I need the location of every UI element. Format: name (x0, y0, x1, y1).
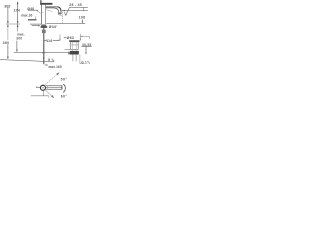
svg-text:G 1¼: G 1¼ (81, 60, 90, 64)
svg-text:max.160: max.160 (49, 65, 62, 69)
svg-text:Ø48: Ø48 (27, 7, 34, 11)
svg-text:Ø63: Ø63 (67, 36, 74, 40)
svg-text:Ø34: Ø34 (49, 25, 56, 29)
svg-text:108: 108 (79, 15, 86, 19)
svg-text:G ⅜: G ⅜ (48, 58, 55, 62)
svg-text:308: 308 (4, 4, 10, 8)
svg-text:116: 116 (46, 39, 52, 43)
svg-text:60°: 60° (61, 94, 68, 98)
svg-text:300: 300 (16, 36, 22, 40)
svg-text:40-53: 40-53 (82, 43, 92, 47)
svg-text:50°: 50° (61, 78, 68, 82)
svg-text:max.30: max.30 (21, 13, 32, 17)
svg-text:28 - 45: 28 - 45 (69, 3, 82, 7)
svg-text:174: 174 (14, 9, 20, 13)
svg-text:360: 360 (3, 41, 10, 45)
